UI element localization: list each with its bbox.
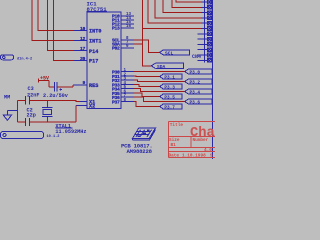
svg-text:P3.4: P3.4 (190, 91, 201, 96)
flag P3.5 (160, 94, 182, 99)
flag SCL (160, 50, 190, 55)
svg-text:d1n.4-2: d1n.4-2 (17, 56, 32, 61)
wire crystal left rail (17, 100, 80, 122)
title block (168, 121, 215, 157)
svg-text:10.1-2: 10.1-2 (47, 135, 60, 139)
wire P34 (134, 89, 185, 92)
wire P33 (134, 85, 160, 87)
svg-text:P3.3: P3.3 (164, 86, 175, 91)
flag P3.3 (160, 84, 182, 89)
power +5V flag (39, 79, 50, 87)
svg-text:P13: P13 (112, 26, 120, 32)
svg-text:SCL: SCL (165, 50, 174, 56)
svg-text:Cha: Cha (190, 125, 215, 141)
wire P32 (134, 80, 185, 81)
svg-text:22nF: 22nF (27, 93, 39, 99)
svg-text:P02: P02 (112, 46, 120, 52)
wire P17 vertical from top (53, 0, 74, 61)
capacitor C2 (25, 118, 29, 126)
flag P3.7 (160, 104, 182, 109)
wire P31 (134, 75, 160, 78)
svg-text:Title: Title (170, 123, 184, 128)
connector CN4 pins (198, 0, 212, 62)
IC1 left pin numbers (80, 26, 86, 86)
wire comb to CN4 (143, 0, 201, 29)
svg-text:87C751: 87C751 (87, 6, 108, 13)
connector CN4 spine (203, 0, 205, 63)
connector stub K1 bottom left (1, 132, 44, 139)
IC1 right pin stubs (121, 16, 134, 102)
svg-text:X2: X2 (89, 104, 95, 110)
svg-text:SDA: SDA (157, 64, 166, 70)
svg-text:1.10.1998: 1.10.1998 (182, 153, 206, 158)
svg-text:20: 20 (80, 56, 86, 62)
svg-text:P3.1: P3.1 (164, 76, 175, 81)
crystal XTAL1 (42, 108, 53, 117)
svg-text:P3.0: P3.0 (190, 71, 201, 76)
capacitor C1 2.2u/50v electrolytic (49, 85, 74, 87)
svg-text:16: 16 (126, 25, 132, 29)
svg-text:P3.2: P3.2 (190, 81, 201, 86)
IC1 right pin labels (112, 14, 120, 106)
IC1 left pin stubs (74, 31, 87, 106)
border sheet right (212, 0, 214, 159)
IC1 designator (87, 10, 108, 12)
svg-text:11.0592MHz: 11.0592MHz (55, 129, 86, 135)
svg-text:B1: B1 (171, 143, 177, 148)
wire P36 (134, 97, 185, 101)
flag P3.0 (185, 69, 212, 74)
svg-text:12: 12 (80, 36, 86, 42)
svg-text:Date: Date (169, 153, 180, 158)
svg-text:+5V: +5V (40, 76, 49, 82)
wire P30 (134, 71, 185, 73)
wire SDA (134, 0, 151, 66)
svg-text:S: S (210, 153, 213, 158)
wire P35 (134, 93, 160, 97)
svg-text:17: 17 (80, 46, 86, 52)
svg-text:C3: C3 (28, 86, 34, 92)
svg-text:AM988228: AM988228 (127, 148, 153, 155)
flag P3.4 (185, 89, 212, 94)
svg-text:MM: MM (4, 95, 10, 101)
wire P14 vertical from top (48, 0, 74, 51)
connector stub J1 left (1, 55, 14, 60)
svg-text:P3.6: P3.6 (190, 101, 201, 106)
flag P3.1 (160, 74, 182, 79)
svg-text:INT1: INT1 (89, 39, 101, 45)
IC1 right pin numbers (124, 13, 132, 103)
svg-text:4.0: 4.0 (204, 148, 212, 153)
flag P3.6 (185, 99, 212, 104)
svg-text:22p: 22p (27, 113, 36, 119)
svg-text:P14: P14 (89, 49, 98, 55)
svg-text:P37: P37 (112, 99, 120, 105)
svg-text:10: 10 (80, 26, 86, 32)
svg-text:2.2u/50v: 2.2u/50v (43, 93, 69, 99)
wire INT1 vertical from top (32, 0, 74, 41)
IC IC1 87C751 box (87, 12, 121, 109)
svg-text:P3.5: P3.5 (164, 96, 175, 101)
capacitor C3 (25, 96, 29, 104)
svg-text:P17: P17 (89, 59, 98, 65)
wire INT0 vertical from top (38, 0, 74, 31)
IC1 left pin labels (89, 29, 101, 110)
svg-text:RES: RES (89, 83, 98, 89)
svg-text:P3.7: P3.7 (164, 106, 175, 111)
wire SCL (134, 40, 159, 53)
PCB logo (132, 128, 155, 140)
wire P37 (134, 102, 160, 107)
flag SDA (151, 63, 183, 68)
svg-text:INT0: INT0 (89, 29, 101, 35)
flag P3.2 (185, 79, 212, 84)
ground (3, 110, 17, 120)
